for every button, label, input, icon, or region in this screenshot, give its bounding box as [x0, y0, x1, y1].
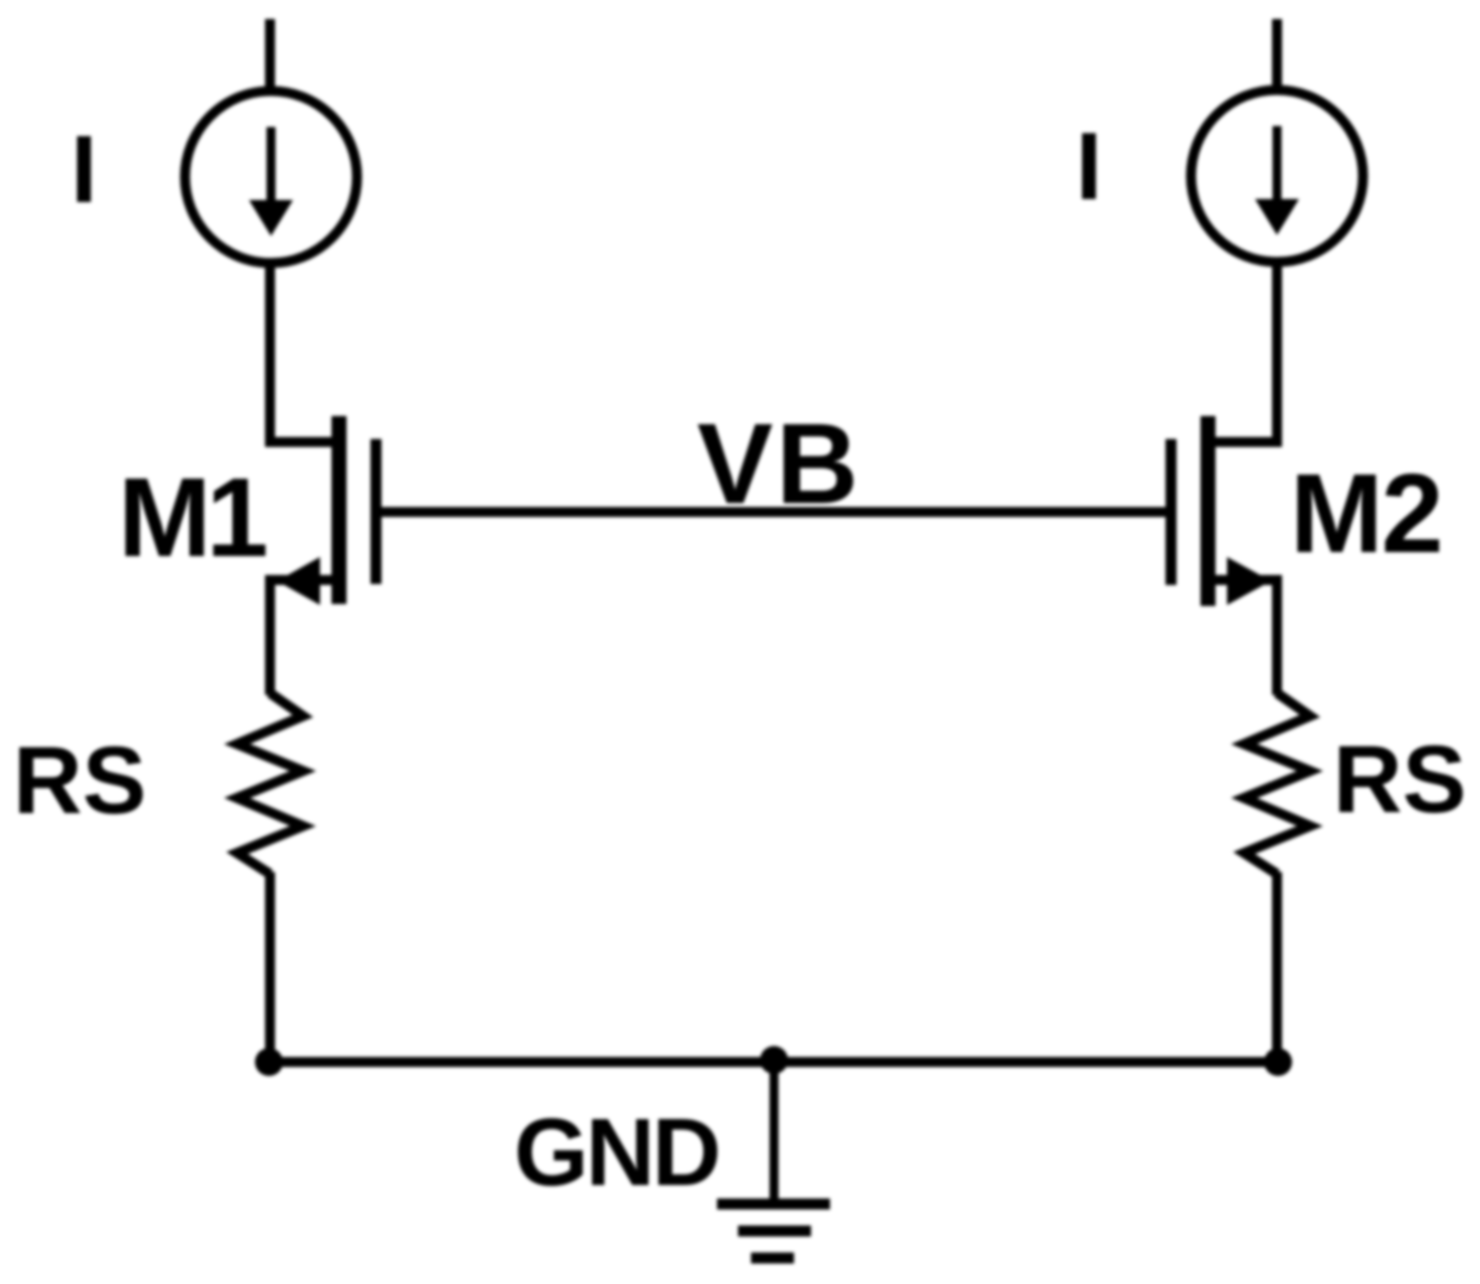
svg-text:M1: M1 — [118, 455, 266, 580]
svg-text:RS: RS — [13, 727, 146, 834]
wire top feed to right current source — [1272, 19, 1282, 96]
wire VB net between gates — [379, 507, 1168, 517]
junction dot bottom-left — [255, 1048, 283, 1076]
svg-text:GND: GND — [514, 1099, 718, 1206]
svg-text:RS: RS — [1333, 726, 1466, 833]
wire M2 source down and resistor feed — [1213, 580, 1277, 695]
transistor M1 source arrow — [277, 557, 320, 605]
junction dot bottom-right — [1264, 1048, 1292, 1076]
wire M1 source down and resistor feed — [270, 580, 334, 695]
wire left resistor to bottom rail — [265, 872, 275, 1062]
wire bottom rail — [269, 1057, 1278, 1067]
transistor M2 channel bar — [1201, 416, 1216, 606]
resistor RS (right) zigzag — [1244, 693, 1310, 874]
resistor RS (left) zigzag — [237, 693, 303, 874]
svg-text:I: I — [1076, 113, 1103, 220]
transistor M2 source arrow — [1227, 557, 1271, 605]
svg-text:VB: VB — [697, 401, 861, 528]
svg-text:M2: M2 — [1290, 451, 1442, 576]
transistor M1 channel bar — [332, 416, 347, 604]
wire GND tap — [770, 1062, 779, 1204]
wire right resistor to bottom rail — [1272, 872, 1282, 1062]
current source arrow (right) — [1255, 126, 1299, 235]
transistor M2 gate bar — [1166, 439, 1177, 585]
transistor M1 gate bar — [371, 439, 382, 584]
junction dot bottom-middle — [760, 1046, 788, 1074]
current source I (right) — [1191, 90, 1363, 262]
current source arrow (left) — [249, 127, 293, 236]
wire left current source to M1 drain — [270, 262, 336, 442]
ground symbol — [717, 1204, 830, 1258]
svg-text:I: I — [71, 116, 98, 223]
wire right current source to M2 drain — [1211, 261, 1277, 442]
wire top feed to left current source — [265, 19, 275, 96]
current source I (left) — [185, 91, 357, 263]
